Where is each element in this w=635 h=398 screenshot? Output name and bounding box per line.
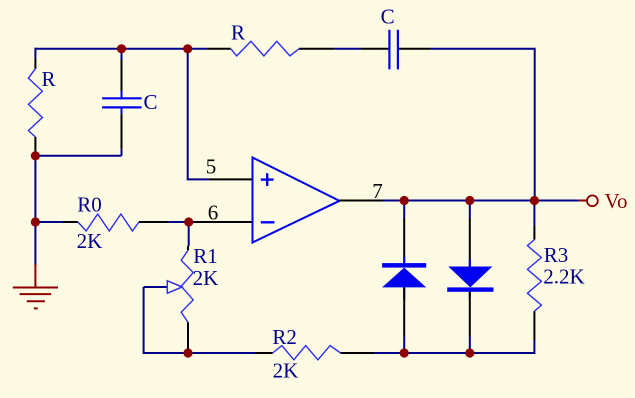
diode D1 lead stub bbox=[403, 257, 405, 264]
resistor R2 zigzag bbox=[273, 346, 341, 360]
junction top pin5 column bbox=[183, 44, 192, 53]
svg-text:R3: R3 bbox=[544, 243, 569, 267]
svg-text:2K: 2K bbox=[273, 358, 299, 382]
diode D1 cathode bar bbox=[382, 263, 426, 268]
diode D2 cathode bar bbox=[447, 287, 493, 291]
svg-text:C: C bbox=[381, 5, 395, 29]
resistor R1 bottom lead bbox=[187, 322, 189, 353]
wire R3 bottom segment bbox=[533, 340, 535, 354]
wire R1 top segment bbox=[188, 222, 190, 246]
junction R0 right pin6 bbox=[184, 217, 193, 226]
wire bottom rail right bbox=[374, 352, 534, 354]
svg-text:2K: 2K bbox=[77, 229, 103, 253]
svg-text:7: 7 bbox=[372, 179, 383, 203]
resistor R1 zigzag bbox=[181, 250, 193, 322]
svg-text:R0: R0 bbox=[77, 193, 102, 217]
resistor R2 pin leads bbox=[256, 352, 374, 354]
wire diode D2 top bbox=[469, 201, 471, 219]
wire output net bbox=[383, 200, 579, 202]
diode D1 top pin bbox=[403, 218, 405, 263]
wire cap C1 row bbox=[35, 155, 121, 157]
junction output D1 bbox=[400, 196, 409, 205]
wire diode D1 top bbox=[403, 201, 405, 219]
wire R left bottom lead bbox=[34, 137, 36, 156]
resistor R0 zigzag bbox=[78, 214, 139, 231]
junction bottom D1 bbox=[400, 348, 409, 357]
diode D1 bottom pin bbox=[403, 287, 405, 336]
svg-text:5: 5 bbox=[206, 154, 217, 178]
wire pin5 net bbox=[188, 49, 209, 180]
svg-text:2K: 2K bbox=[193, 266, 219, 290]
wire R0 right segment bbox=[169, 221, 189, 223]
resistor R top pin leads bbox=[208, 48, 335, 50]
ground pin bbox=[34, 264, 36, 288]
op-amp minus input symbol bbox=[261, 221, 275, 223]
capacitor C1 bottom lead bbox=[121, 107, 123, 155]
wire top rail right segment bbox=[431, 49, 535, 201]
capacitor C1 top lead bbox=[121, 49, 123, 99]
junction R0 left bbox=[31, 217, 40, 226]
pin 5 lead bbox=[209, 178, 253, 180]
resistor R3 bottom lead bbox=[533, 311, 535, 340]
diode D2 lead stub lower bbox=[469, 292, 471, 298]
junction output D2 bbox=[465, 196, 474, 205]
resistor R1 top lead bbox=[187, 246, 189, 250]
Vo terminal circle bbox=[587, 195, 598, 206]
svg-text:6: 6 bbox=[208, 201, 219, 225]
output pin lead bbox=[340, 200, 384, 202]
diode D2 lead stub bbox=[469, 260, 471, 267]
capacitor C (top) plates bbox=[389, 30, 398, 70]
resistor R (top) zigzag bbox=[231, 41, 299, 56]
junction top cap C1 bbox=[117, 44, 126, 53]
resistor R3 top lead bbox=[533, 226, 535, 240]
diode D2 bottom pin bbox=[469, 292, 471, 336]
pin 6 lead bbox=[194, 221, 253, 223]
resistor R (left) zigzag bbox=[28, 69, 42, 137]
diode D2 top pin bbox=[469, 218, 471, 267]
junction bottom R1 bbox=[183, 348, 192, 357]
op-amp U1 triangle bbox=[253, 158, 340, 243]
wire R3 top segment bbox=[533, 201, 535, 227]
junction bottom D2 bbox=[465, 348, 474, 357]
potentiometer wiper arrow bbox=[144, 281, 182, 294]
Vo terminal lead bbox=[579, 200, 587, 202]
junction cap C1 bottom bbox=[31, 151, 40, 160]
junction output R3 bbox=[530, 196, 539, 205]
svg-text:R: R bbox=[41, 67, 55, 91]
wire left column top lead bbox=[34, 48, 36, 69]
svg-text:2.2K: 2.2K bbox=[543, 265, 584, 289]
wire R0 left segment bbox=[35, 221, 63, 223]
resistor R3 zigzag bbox=[527, 240, 541, 312]
capacitor C (left) plates bbox=[102, 98, 142, 107]
wire between R and C top bbox=[334, 48, 361, 50]
resistor R0 pin leads bbox=[63, 221, 169, 223]
wire wiper vertical bbox=[144, 287, 188, 353]
op-amp plus input symbol bbox=[261, 173, 274, 186]
wire top rail left segment bbox=[35, 48, 208, 50]
diode D2 triangle bbox=[448, 267, 492, 288]
svg-text:Vo: Vo bbox=[605, 189, 628, 213]
svg-text:R1: R1 bbox=[193, 244, 218, 268]
diode D1 triangle bbox=[382, 268, 426, 288]
svg-text:C: C bbox=[143, 90, 157, 114]
wire diode D2 bottom bbox=[469, 336, 471, 353]
ground symbol bbox=[13, 288, 58, 309]
wire diode D1 bottom bbox=[403, 336, 405, 353]
wire bottom rail left bbox=[188, 352, 256, 354]
svg-text:R2: R2 bbox=[272, 325, 297, 349]
wire left column mid bbox=[34, 156, 36, 266]
diode D1 lead stub lower bbox=[403, 287, 405, 299]
svg-text:R: R bbox=[231, 21, 245, 45]
capacitor C top pin leads bbox=[361, 48, 431, 50]
